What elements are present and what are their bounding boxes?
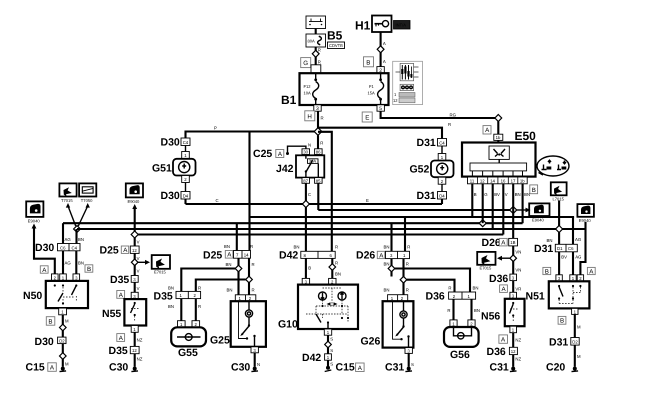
svg-text:14: 14 [490,179,495,184]
branch R to G55 D35-2 [196,280,246,292]
J42 pin 87 box [302,178,310,184]
svg-text:R: R [198,304,201,309]
connector D42 8/6 [279,250,335,262]
wire L7015 down to diamond on line L5 [558,201,560,230]
svg-text:D25: D25 [203,250,222,262]
svg-text:B5: B5 [327,29,343,43]
bus line L2 [318,209,513,211]
J42 pin 86 box [315,149,323,155]
wire V down from L6 to D25 12 [134,238,136,246]
car icon [537,156,569,176]
N55 top pin 3 [131,292,138,299]
H1 key box [372,16,392,33]
junction diamond E7015 arrow [131,259,138,266]
wire H1 down to B1 pin 2 [380,32,382,67]
junction diamond RG [495,115,502,122]
letter box G [301,58,311,68]
svg-text:G10: G10 [278,319,298,331]
wire D30 C6 to N50 pin 1 [62,251,64,274]
connector D35 12 [109,345,140,357]
N51 pin boxes 3 1 2 [556,275,584,281]
ground C15 [26,362,67,374]
badge INT/A [394,21,411,30]
right icon: hazard switch L7015 [551,182,567,201]
svg-text:C30: C30 [231,362,250,374]
svg-text:H: H [307,113,311,120]
letter box B (N50) [85,265,93,273]
svg-text:D2: D2 [59,338,65,343]
svg-text:C25: C25 [253,148,272,160]
battery B5 symbol box [306,16,326,29]
arrow up to E9040 [132,204,137,235]
left icon: door lock E9040 [126,183,143,203]
svg-text:D26: D26 [356,250,375,262]
svg-text:R: R [318,60,321,65]
wire D31 D1 to N51 pin 3 [558,252,560,275]
central junction diamond [314,128,322,136]
svg-text:C30: C30 [109,362,128,374]
right letter box B [530,185,538,194]
svg-text:14: 14 [244,253,249,258]
svg-text:N51: N51 [526,291,545,303]
svg-text:G51: G51 [152,163,172,175]
svg-text:12: 12 [132,248,137,253]
wires D35 to G55 pins [180,299,182,321]
wire N51 down [574,314,576,337]
svg-text:E9040: E9040 [28,218,41,223]
junction diamond E7015 arrow (right) [510,255,517,262]
wire G25 down [254,353,256,367]
B1 pin 5 box [377,105,384,112]
fuse box 80A of B5 [306,34,326,47]
switch N55 [124,299,146,325]
letter box B (below N51) [558,316,566,324]
svg-text:R: R [335,261,338,266]
J42 pin 85 box [315,178,323,184]
svg-text:BN: BN [168,286,174,291]
wire J42 87 down to junction [305,183,307,204]
left icon: flap T7050 [79,183,96,202]
svg-text:AG: AG [65,237,72,242]
wire BN from L5 diamond down to D31 D1 [558,233,560,245]
svg-text:D35: D35 [154,291,173,303]
junction diamond on H1 wire [377,46,384,53]
G10 pin boxes 3 2 [302,278,336,284]
svg-text:N55: N55 [102,308,121,320]
svg-text:C15: C15 [26,362,45,374]
svg-text:G25: G25 [210,335,230,347]
connector D25 A 12 [100,245,140,257]
svg-text:87: 87 [303,178,308,183]
svg-text:D31: D31 [417,137,436,149]
ground C30 (G25) [231,362,258,374]
wire D26 1 down [402,259,404,295]
wire R from L3 to D26 1 [404,217,406,251]
svg-text:11: 11 [470,179,475,184]
wire BN from L4 to D25 7 [236,223,238,250]
wire pin 1b [522,183,524,223]
fuse F12 10A [304,73,319,105]
wire D31 D4 down to line C [441,199,443,204]
connector D30 C6/C4 [35,242,80,254]
svg-text:V: V [137,286,140,291]
junction diamond on D42 6 wire [329,264,336,271]
relay pinout legend [393,61,423,104]
svg-text:V: V [505,192,508,197]
branch R to D36 2 (G56) [407,280,455,292]
svg-text:M: M [577,325,581,330]
svg-text:BV: BV [494,192,500,197]
bus line L3 (R) [250,216,575,218]
svg-text:E50: E50 [515,129,537,143]
svg-text:16: 16 [501,179,506,184]
wire R from central junction to D31 C4 [318,128,442,139]
wire G51 to D30 D4 [185,183,187,192]
connector D36 2/1 (G56) [426,291,476,303]
svg-text:R: R [198,286,201,291]
svg-text:V: V [137,269,140,274]
right icon: door lock E9040 (mid) [529,203,549,222]
svg-text:G55: G55 [178,347,198,359]
svg-text:D36: D36 [426,291,445,303]
svg-text:D2: D2 [572,339,578,344]
G55 pin boxes [178,321,200,328]
wire N50 down [62,315,64,337]
svg-text:R: R [448,122,451,127]
connector D36 12 [487,346,518,358]
connector D26 3/1 [356,250,410,262]
letter box A [483,126,491,135]
wire D30 C4 to N50 pin 3 [75,251,77,274]
wire E9040 far down to N51 pin 2 [580,222,585,275]
svg-text:1B: 1B [510,240,515,245]
svg-text:D30: D30 [161,137,180,149]
buzzer G52 [431,161,454,178]
wire down to E50 pin 1b [497,122,499,143]
N55 bottom pin 1 [131,326,138,333]
svg-text:BN: BN [384,288,390,293]
G51 pin 1 box [182,152,190,159]
svg-text:BN: BN [524,192,530,197]
svg-text:S: S [330,337,333,342]
window switch N51 [549,281,590,308]
svg-text:80A: 80A [308,39,316,44]
svg-text:85: 85 [316,178,321,183]
svg-text:BV: BV [561,255,567,260]
fusebox B1 [300,73,389,105]
svg-text:M: M [65,319,69,324]
svg-text:12: 12 [480,179,485,184]
junction diamond L2 [510,207,517,214]
connector D26 A 1B [482,237,518,249]
svg-text:D4: D4 [183,193,189,198]
window motor G25 [231,301,266,347]
svg-text:C6: C6 [60,245,66,250]
svg-text:C4: C4 [72,245,78,250]
wire pin 12 [482,183,484,223]
svg-text:BN: BN [515,192,521,197]
G56 pin boxes [450,320,475,327]
wire R from P-line junction down to D25 14 [248,132,250,251]
svg-text:R: R [320,141,323,146]
svg-text:B: B [560,318,564,325]
wire BN to D30 C4 [75,229,77,244]
svg-text:D31: D31 [534,243,553,255]
svg-text:D30: D30 [35,242,54,254]
wire G26 down [408,353,410,366]
junction diamond L4 [479,220,486,227]
svg-text:NZ: NZ [137,357,143,362]
svg-text:86: 86 [316,150,321,155]
svg-text:B1: B1 [281,93,297,107]
ground C31 (G26) [385,362,412,374]
svg-text:V: V [137,240,140,245]
junction diamond on line C [302,201,309,208]
svg-text:C15: C15 [336,362,355,374]
connector D35 1/2 (G55) [154,291,201,303]
svg-text:B: B [532,187,536,194]
motor G55 [171,327,206,346]
svg-text:D36: D36 [487,346,506,358]
letter box E [362,112,372,122]
svg-text:30: 30 [303,150,308,155]
svg-text:N: N [257,362,260,367]
connector D35 3 (top) [110,274,138,286]
svg-text:D42: D42 [302,352,321,364]
svg-text:B: B [48,319,52,326]
motor G25 pins [235,295,256,301]
icon hazard E7015 [152,255,170,274]
E50 inner icon box [489,146,509,163]
junction diamond L6 [131,231,138,238]
letter box B (below N50) [46,317,55,326]
svg-text:NZ: NZ [137,338,143,343]
connector D31 D2 [549,337,579,349]
svg-text:N: N [308,143,311,148]
sunroof unit G10 [298,285,358,329]
wire G10 down [327,335,329,354]
wires from T7015/T7050 to junction (up arrows) [66,203,90,226]
wire B5 down to B1 [315,47,317,65]
letter box A (N56 bottom) [499,335,508,344]
svg-text:E7015: E7015 [480,266,493,271]
wire D26 1B down [512,246,514,274]
svg-text:R: R [252,288,255,293]
svg-text:D26: D26 [482,237,501,249]
ground C15 (G10) [325,362,364,374]
svg-text:E9040: E9040 [128,199,141,204]
connector C25 A [253,148,284,160]
connector D42 5 [302,352,331,364]
svg-text:R: R [252,262,255,267]
svg-text:AG: AG [575,237,582,242]
junction diamond below N50 [60,324,67,331]
svg-text:BN: BN [473,286,479,291]
svg-text:R: R [318,48,321,53]
svg-text:D30: D30 [35,336,54,348]
svg-text:D35: D35 [109,345,128,357]
wire to N55 [134,282,136,292]
svg-text:BN: BN [168,304,174,309]
svg-text:D25: D25 [100,245,119,257]
svg-text:C4: C4 [183,140,189,145]
svg-text:G: G [303,60,308,67]
J42 coil and contact [305,155,319,177]
bus line C (G51-J42-G52) [186,203,443,205]
wire N56 down [512,333,514,367]
svg-text:B: B [87,266,91,273]
svg-text:T7050: T7050 [81,198,93,203]
svg-text:J42: J42 [276,163,294,175]
wire AG to D30 C6 [62,223,64,243]
svg-text:C31: C31 [385,362,404,374]
svg-text:R: R [448,286,451,291]
junction diamond BN (G26) [388,265,395,272]
svg-text:R: R [321,116,324,121]
svg-text:AG: AG [575,255,582,260]
window motor G26 [383,301,414,347]
G52 pin 1 box [438,154,446,161]
wire BN from line C junction down to D42 8 [305,208,307,252]
svg-text:D31: D31 [549,337,568,349]
svg-text:INT/A: INT/A [396,23,407,28]
icon hazard E7015 (right) [477,252,495,271]
svg-text:C6: C6 [568,246,574,251]
svg-text:P: P [214,126,217,131]
svg-text:CDVTB: CDVTB [329,43,343,48]
svg-text:C20: C20 [546,362,565,374]
ground C31 (N56) [490,362,517,374]
svg-text:B: B [308,266,311,271]
switch N56 [505,299,525,326]
letter box B (N51 top) [543,267,551,275]
wire battery to fuse [315,29,317,35]
arrow to E7015 right [497,256,510,261]
right icon: door lock E9040 (far) [577,204,594,223]
wire P from central junction to D30 C4 [186,128,319,138]
arrow from L2 diamond to E9040 [517,208,531,213]
wire J42 85 down to line L2 [317,183,319,210]
wires D36 to G56 pins [452,299,454,320]
junction diamond V [74,226,81,233]
wire D26 3 down to G26 pin 1 [390,259,392,277]
svg-text:15A: 15A [368,91,376,96]
junction diamond on B5 wire [312,50,319,57]
N51 bottom pin 1 [572,308,578,314]
svg-text:RG: RG [450,113,457,118]
B1 top-left pin box [311,65,321,73]
wire to N56 [512,281,514,293]
wire D31 C6 to N51 pin 1 [572,252,574,275]
motor G56 [444,327,479,347]
wire D25 7 down to G25 pin 1 [237,258,239,295]
svg-text:D4: D4 [439,193,445,198]
fuse F1 15A [368,73,384,105]
G10 bottom pin 1 [324,329,331,335]
svg-text:BN: BN [384,245,390,250]
relay J42 [296,155,324,177]
svg-text:A: A [383,59,386,64]
svg-text:B: B [474,192,477,197]
svg-text:E9040: E9040 [532,218,545,223]
svg-text:BN: BN [335,272,341,277]
svg-text:BN: BN [78,237,84,242]
letter box B [364,57,374,67]
wire far-left lock down to N50 pin 2 [32,224,55,274]
svg-text:S: S [330,362,333,367]
N56 top pin 3 [510,292,517,299]
svg-text:B: B [366,59,370,66]
junction diamond below G10 [325,341,332,348]
svg-text:12: 12 [393,98,398,103]
letter box A (N55 bottom) [117,334,125,342]
connector D30 C4 (top of G51) [161,137,191,149]
left icon: hazard switch T7015 [59,183,76,202]
bus line L6 (V) [135,233,504,235]
window switch N50 [46,281,88,308]
svg-text:NZ: NZ [515,338,521,343]
svg-text:E: E [365,115,369,122]
ground C30 [109,362,138,374]
junction diamond above C15 [60,353,67,360]
svg-text:BN: BN [474,308,480,313]
buzzer G51 [173,159,196,176]
wire BN from L4 to D26 3 [390,223,392,251]
junction diamond BN branch [235,265,242,272]
connector D36 3 [489,273,517,285]
svg-text:F12: F12 [304,84,312,89]
svg-text:F1: F1 [369,84,375,89]
badge CDVTB [328,42,345,49]
connector D31 D4 [417,190,447,202]
svg-text:N50: N50 [23,290,42,302]
E50 top pin 1b box [494,134,503,140]
connector D31 C4 (top of G52) [417,137,447,149]
svg-text:R: R [407,245,410,250]
ground C20 [546,362,578,374]
svg-text:D30: D30 [161,190,180,202]
wire pin 14 [492,183,494,229]
svg-text:VN: VN [515,250,521,255]
svg-text:VR: VR [515,287,521,292]
svg-text:C4: C4 [439,140,445,145]
svg-text:M: M [65,362,69,367]
svg-text:10A: 10A [304,91,312,96]
G26 bottom pin 3 [405,348,412,354]
bus line L4 (BN) [63,222,523,224]
wire B1 pin5 to E50 (RG) [381,111,499,118]
svg-text:B: B [545,268,549,275]
letter box A (N55 top) [117,291,125,299]
letter box A (N50) [40,266,48,274]
svg-text:R: R [406,288,409,293]
svg-text:R: R [250,244,253,249]
wire to G51 pin 1 [185,146,187,152]
letter box A (N56 top) [500,285,508,293]
wire D30 D4 down to line C [184,199,186,204]
junction diamond L5 [556,226,563,233]
letter box H [305,111,315,121]
N56 bottom pin 1 [510,326,517,333]
svg-text:G52: G52 [410,164,430,176]
wire pin 16 [502,183,504,234]
G26 pin boxes 1 2 [388,295,408,302]
svg-text:C: C [308,192,311,197]
E50 inner terminal bar [470,163,527,177]
svg-text:1b: 1b [496,135,501,140]
svg-text:T7015: T7015 [61,198,73,203]
connector D31 D1/C6 [534,243,577,255]
